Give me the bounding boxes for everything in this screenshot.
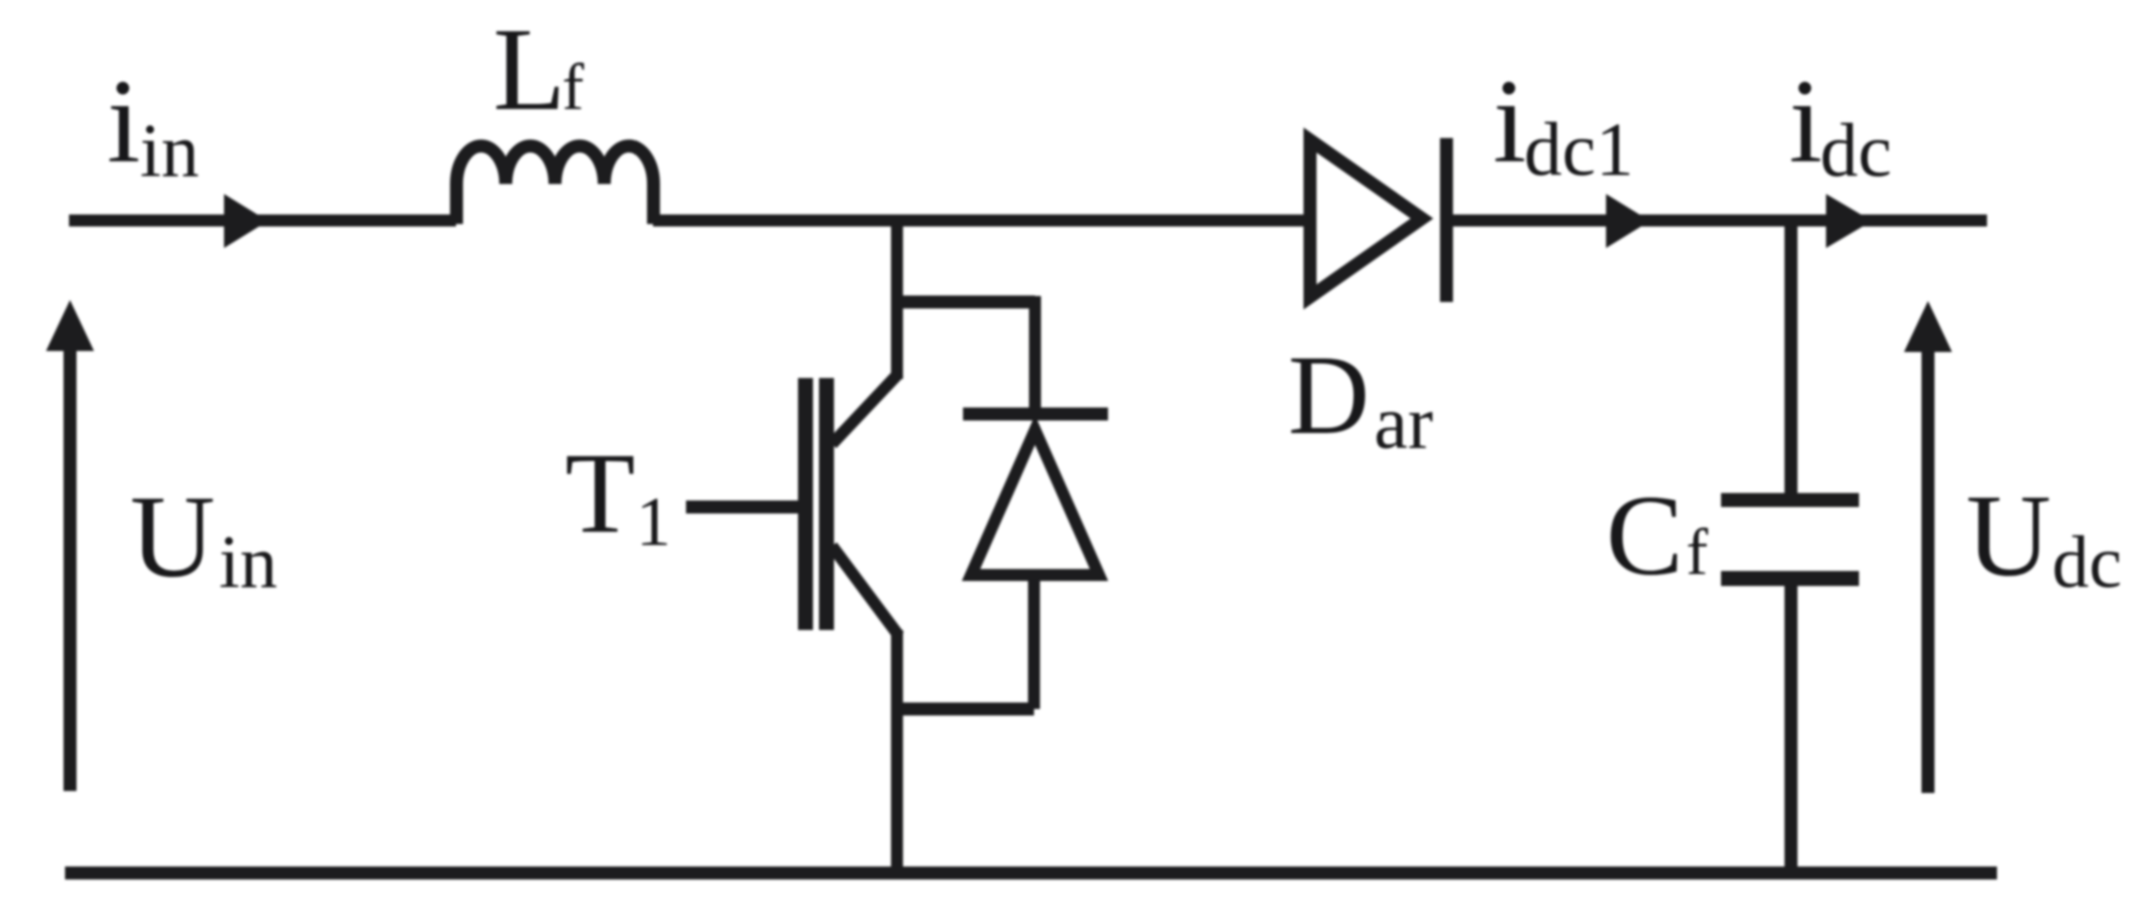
wire top right segment bbox=[1446, 215, 1987, 227]
voltage arrow Udc head bbox=[1904, 301, 1952, 352]
transistor T1 gate bar right bbox=[819, 378, 834, 630]
transistor T1 gate lead bbox=[686, 501, 800, 514]
wire IGBT emitter vertical bbox=[891, 630, 903, 873]
voltage arrow Uin head bbox=[46, 300, 94, 351]
diode D1 cathode bar (antiparallel) bbox=[963, 408, 1108, 421]
wire top middle segment bbox=[653, 215, 1310, 227]
current arrow iin head bbox=[224, 194, 268, 248]
transistor T1 gate bar left bbox=[798, 378, 813, 630]
svg-text:f: f bbox=[1686, 516, 1708, 589]
wire capacitor top lead bbox=[1785, 220, 1798, 493]
diode D1 triangle (antiparallel) bbox=[971, 430, 1099, 575]
wire capacitor bottom lead bbox=[1785, 586, 1798, 874]
wire IGBT collector vertical bbox=[891, 215, 903, 379]
svg-text:T: T bbox=[565, 430, 635, 557]
transistor T1 collector diagonal bbox=[832, 373, 899, 444]
wire diode branch upper vertical bbox=[1029, 296, 1041, 414]
svg-text:L: L bbox=[493, 3, 566, 135]
svg-text:U: U bbox=[130, 471, 215, 602]
wire top left segment bbox=[69, 215, 456, 227]
voltage arrow Uin line bbox=[64, 349, 77, 791]
svg-text:ar: ar bbox=[1374, 381, 1433, 465]
inductor Lf bbox=[457, 146, 654, 224]
current arrow idc head bbox=[1826, 194, 1872, 248]
svg-text:U: U bbox=[1966, 470, 2051, 601]
svg-text:1: 1 bbox=[636, 484, 671, 561]
wire bottom jog from emitter bbox=[897, 703, 1034, 716]
svg-text:dc: dc bbox=[1820, 109, 1892, 193]
svg-text:f: f bbox=[562, 51, 584, 124]
svg-text:dc: dc bbox=[2052, 522, 2122, 604]
svg-text:dc1: dc1 bbox=[1524, 108, 1634, 192]
svg-text:D: D bbox=[1288, 333, 1370, 458]
wire bottom rail bbox=[65, 867, 1997, 880]
capacitor Cf bottom plate bbox=[1721, 571, 1859, 586]
svg-text:i: i bbox=[107, 54, 140, 187]
wire top jog to diode branch bbox=[897, 296, 1035, 309]
diode Dar triangle bbox=[1310, 140, 1422, 297]
transistor T1 emitter diagonal bbox=[832, 546, 899, 636]
wire diode branch lower vertical bbox=[1028, 575, 1040, 709]
voltage arrow Udc line bbox=[1922, 352, 1935, 793]
svg-text:C: C bbox=[1606, 472, 1683, 600]
svg-text:i: i bbox=[1789, 54, 1822, 187]
svg-text:in: in bbox=[219, 521, 277, 604]
svg-text:i: i bbox=[1493, 54, 1526, 187]
capacitor Cf top plate bbox=[1721, 493, 1859, 507]
diode Dar cathode bar bbox=[1440, 138, 1453, 302]
current arrow idc1 head bbox=[1606, 194, 1650, 248]
svg-text:in: in bbox=[140, 109, 199, 193]
